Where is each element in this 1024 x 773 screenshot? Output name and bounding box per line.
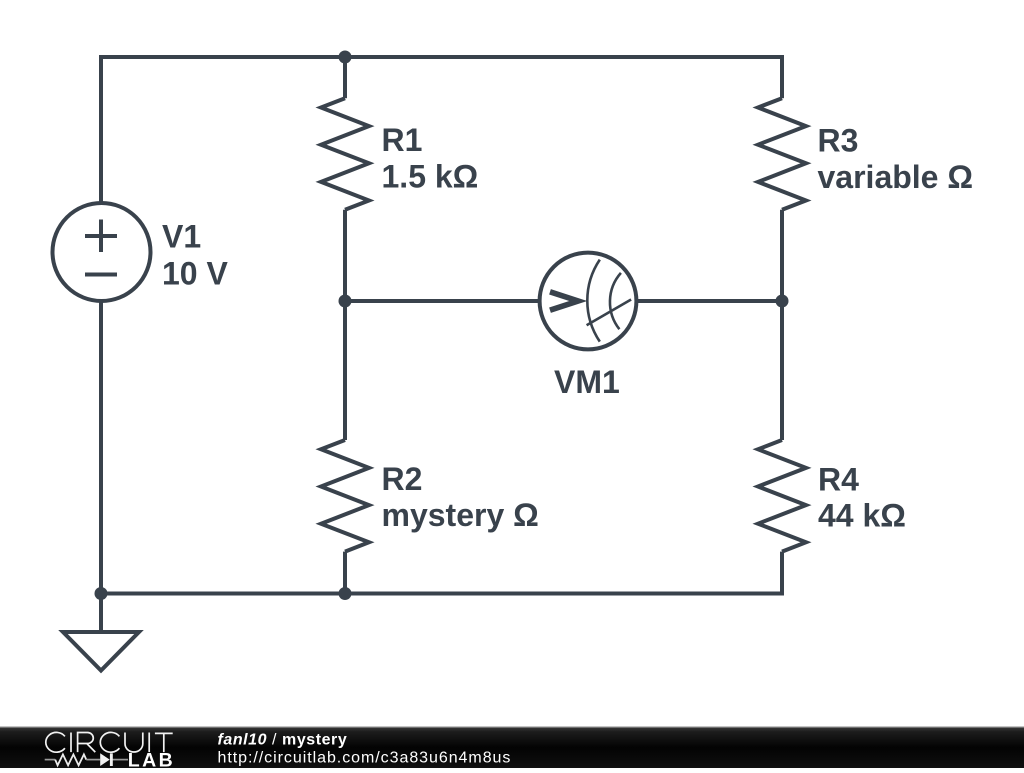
svg-text:variable Ω: variable Ω (818, 159, 974, 195)
junction node bottom-left (ground) (95, 587, 108, 600)
CircuitLab logo resistor-diode glyph (45, 754, 128, 765)
svg-text:R4: R4 (818, 461, 859, 497)
label R3 (818, 122, 974, 195)
ground (63, 594, 139, 671)
label VM1 (554, 364, 620, 400)
label R4 (818, 461, 906, 533)
junction node A (R1/R2/VM1) (339, 295, 352, 308)
wire: R2 bottom to bottom rail (343, 552, 347, 594)
wire: top rail (101, 55, 782, 59)
svg-text:LAB: LAB (128, 749, 175, 768)
wire: node B to R4 top (780, 301, 784, 440)
svg-text:10 V: 10 V (162, 255, 228, 291)
wire: R3 bottom to node B (780, 210, 784, 301)
CircuitLab logo wordmark CIRCUIT (hand-drawn thin letters) (46, 732, 173, 752)
resistor R4 (758, 440, 806, 552)
wire: voltmeter right terminal to node B (616, 299, 782, 303)
voltage source V1 (53, 203, 151, 301)
wire: bottom rail (101, 592, 782, 596)
wire: right vertical top rail to R3 (780, 55, 784, 98)
svg-text:1.5 kΩ: 1.5 kΩ (382, 159, 479, 195)
junction node B (R3/R4/VM1) (776, 295, 789, 308)
wire: top rail to R1 top (343, 57, 347, 98)
resistor R2 (321, 440, 369, 552)
svg-text:R1: R1 (382, 122, 423, 158)
svg-text:R2: R2 (382, 461, 423, 497)
svg-text:mystery Ω: mystery Ω (382, 497, 539, 533)
junction node bottom (R2/bottom rail) (339, 587, 352, 600)
wire: node A to R2 top (343, 301, 347, 440)
svg-text:http://circuitlab.com/c3a83u6n: http://circuitlab.com/c3a83u6n4m8us (218, 749, 512, 766)
footer bar (0, 727, 1024, 769)
svg-text:VM1: VM1 (554, 364, 620, 400)
wire: R1 bottom to node A (343, 210, 347, 301)
voltmeter VM1 (540, 253, 637, 350)
label R2 (382, 461, 539, 533)
svg-text:44 kΩ: 44 kΩ (818, 498, 906, 534)
wire: left vertical top rail to V1 (99, 55, 103, 206)
resistor R3 (758, 98, 806, 210)
junction node top (R1/top rail) (339, 51, 352, 64)
resistor R1 (321, 98, 369, 210)
label R1 (382, 122, 479, 195)
wire: V1 bottom to bottom rail (99, 299, 103, 594)
label V1 (162, 219, 228, 292)
svg-text:fanl10 / mystery: fanl10 / mystery (218, 732, 348, 749)
wire: R4 bottom to bottom rail (780, 552, 784, 596)
wire: node A to voltmeter left terminal (345, 299, 560, 303)
svg-text:R3: R3 (818, 122, 859, 158)
svg-text:V1: V1 (162, 219, 201, 255)
